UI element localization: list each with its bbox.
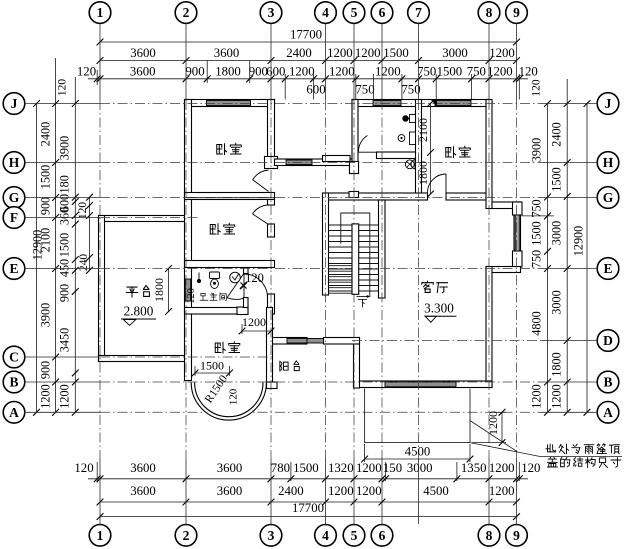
svg-text:750: 750 (401, 83, 420, 97)
axis grid line D (352, 340, 598, 342)
svg-text:F: F (10, 210, 18, 225)
svg-text:1200: 1200 (356, 484, 382, 498)
dimension line top row3 (88, 75, 528, 82)
svg-text:4: 4 (322, 5, 329, 20)
wall: balcony top wall right part (324, 338, 360, 345)
wall: living room bay top wall (492, 202, 521, 209)
svg-text:1200: 1200 (489, 461, 515, 475)
door leaf bathroom2 (227, 274, 244, 298)
window balcony left (287, 339, 307, 344)
floor drain bathroom2 (197, 279, 201, 283)
svg-text:120: 120 (57, 79, 69, 97)
svg-text:J: J (605, 96, 612, 111)
svg-text:3600: 3600 (217, 484, 243, 498)
svg-text:3000: 3000 (407, 461, 433, 475)
svg-text:2: 2 (183, 528, 190, 543)
svg-text:1320: 1320 (328, 461, 354, 475)
svg-text:3900: 3900 (57, 136, 71, 160)
wall: platform top wall (99, 216, 185, 222)
wall: passage right wall stub (268, 294, 275, 314)
wall: bedroom1 right wall (268, 100, 275, 157)
door arc bedroom4 (428, 174, 447, 193)
toilet bathroom2 (210, 272, 220, 279)
stair treads (329, 225, 379, 291)
canopy outline (365, 389, 470, 443)
svg-text:1: 1 (97, 5, 104, 20)
svg-text:900: 900 (39, 361, 53, 379)
svg-text:2400: 2400 (39, 122, 53, 146)
wall: top wall bathroom and bedroom4 (352, 100, 492, 107)
stair stringer (352, 224, 359, 294)
wall: G wall stair and bedroom4 left part (323, 193, 428, 200)
room label bathroom2 (200, 293, 208, 300)
room label bedroom4 (446, 147, 456, 158)
svg-text:2100: 2100 (416, 118, 430, 142)
svg-text:1500: 1500 (39, 165, 53, 189)
svg-text:3000: 3000 (442, 46, 468, 60)
wall: living room right wall (486, 267, 492, 388)
grid circle B left (3, 371, 25, 393)
axis grid line E (24, 268, 598, 270)
svg-text:120: 120 (77, 65, 96, 79)
dimension line right inner chain (544, 100, 551, 416)
svg-text:3000: 3000 (550, 290, 564, 314)
stair lower flight extra lines (329, 266, 353, 294)
grid circle 1 top (89, 2, 111, 24)
canopy leader lines (470, 421, 517, 452)
svg-text:900: 900 (39, 197, 53, 215)
svg-text:1200: 1200 (356, 461, 382, 475)
svg-text:E: E (603, 261, 612, 276)
elevation underline living room (425, 315, 457, 317)
bay semicircle inner (195, 383, 263, 417)
dimension line top row2 (97, 57, 520, 64)
dimension line left overall (33, 100, 40, 416)
grid circle E left (3, 258, 25, 280)
svg-text:6: 6 (379, 528, 386, 543)
svg-text:8: 8 (486, 5, 493, 20)
axis grid line 7 (418, 24, 420, 525)
wall: G wall bedrooms (185, 193, 275, 200)
dimension line 17700 bottom (97, 513, 520, 520)
axis grid line 9 (516, 24, 518, 526)
window balcony slider (307, 339, 324, 344)
svg-text:H: H (603, 155, 614, 170)
grid circle 4 bottom (315, 525, 337, 547)
wall: stairwell left wall (323, 193, 329, 295)
grid circle G left (3, 187, 25, 209)
svg-text:2400: 2400 (278, 484, 304, 498)
axis grid line 4 (325, 24, 327, 526)
svg-text:2: 2 (183, 5, 190, 20)
wall: H wall corridor (275, 159, 353, 166)
elevation triangle platform (123, 320, 135, 326)
axis grid line 5 (353, 24, 355, 526)
svg-text:2400: 2400 (286, 46, 312, 60)
bedroom3 dim line 1500 (192, 366, 233, 376)
svg-text:1200: 1200 (242, 315, 266, 329)
svg-text:780: 780 (271, 461, 290, 475)
grid circle 8 top (478, 2, 500, 24)
svg-text:1200: 1200 (486, 411, 500, 435)
wall: bay wall bottom cap (513, 251, 523, 267)
basin bathroom top (410, 132, 416, 145)
wall: bedroom2 right wall upper stub (268, 200, 275, 206)
axis grid line F (24, 217, 200, 219)
room label bedroom1 (217, 144, 227, 155)
axis grid line 2 (185, 24, 187, 526)
grid circle 3 bottom (260, 525, 282, 547)
svg-text:1200: 1200 (329, 65, 355, 79)
axis grid line B (24, 381, 598, 383)
grid circle A right (597, 402, 619, 424)
wall: grid7 wall (416, 100, 422, 194)
G wall inner face line (185, 197, 275, 199)
axis grid line 3 (270, 24, 272, 526)
toilet bathroom top (404, 118, 416, 120)
svg-text:B: B (603, 375, 612, 390)
svg-text:1200: 1200 (489, 46, 515, 60)
svg-text:180: 180 (57, 175, 71, 193)
grid circle H left (3, 152, 25, 174)
window bay east (515, 215, 519, 251)
grid circle E right (597, 258, 619, 280)
svg-text:H: H (9, 155, 20, 170)
door tick bathroom2 (240, 282, 247, 289)
svg-text:600: 600 (266, 65, 285, 79)
window H corridor (286, 160, 312, 165)
grid circle 9 top (506, 2, 528, 24)
note line2 盖的结构尺寸 (547, 457, 557, 467)
door arc bedroom2 (253, 205, 269, 214)
grid circle 6 bottom (371, 525, 393, 547)
svg-text:1200: 1200 (487, 65, 513, 79)
axis grid line C (24, 356, 272, 358)
axis grid line J (24, 103, 598, 105)
window living room south (385, 382, 456, 387)
wall: bathroom left wall lower block (350, 162, 359, 174)
canopy right dim line 1200 (472, 409, 506, 446)
svg-text:3.300: 3.300 (424, 300, 454, 315)
window bathroom2 west (185, 279, 190, 301)
wall: bathroom left wall end block (350, 166, 359, 174)
grid circle 1 bottom (89, 525, 111, 547)
axis grid line G (24, 197, 598, 199)
svg-text:360: 360 (57, 207, 71, 225)
svg-text:17700: 17700 (290, 28, 322, 42)
svg-text:450: 450 (57, 259, 71, 277)
grid circle 3 top (260, 2, 282, 24)
svg-text:4500: 4500 (423, 484, 449, 498)
svg-text:1200: 1200 (39, 384, 53, 408)
svg-text:3600: 3600 (130, 65, 156, 79)
svg-text:7: 7 (415, 5, 422, 20)
dimension line right overall (584, 100, 591, 416)
svg-text:1200: 1200 (355, 46, 381, 60)
wall: bathroom2 bottom wall end cap (237, 307, 248, 315)
room label platform (126, 287, 137, 297)
dimension line right mid chain (564, 79, 571, 416)
grid circle 5 bottom (343, 525, 365, 547)
wall: bathroom bottom wall (377, 152, 422, 159)
wall: bedroom1 door end block (265, 157, 278, 169)
svg-text:9: 9 (513, 528, 520, 543)
wall: bathroom top left wall (352, 100, 358, 167)
svg-text:900: 900 (185, 65, 204, 79)
svg-text:D: D (603, 333, 613, 348)
svg-text:900: 900 (249, 65, 268, 79)
svg-text:1200: 1200 (328, 484, 354, 498)
grid circle 6 top (371, 2, 393, 24)
wall: west wall (185, 100, 192, 381)
axis grid line A (24, 411, 598, 413)
window bedroom1 top (207, 101, 251, 106)
door arc bedroom1 (253, 170, 269, 180)
svg-text:3: 3 (268, 5, 275, 20)
room label bedroom2 (210, 224, 220, 235)
svg-text:1500: 1500 (383, 46, 409, 60)
svg-text:5: 5 (351, 528, 358, 543)
svg-text:750: 750 (467, 65, 486, 79)
svg-text:1800: 1800 (550, 352, 564, 376)
svg-text:2.800: 2.800 (124, 304, 154, 319)
svg-text:750: 750 (355, 83, 374, 97)
grid circle F left (3, 207, 25, 229)
svg-text:6: 6 (379, 5, 386, 20)
wall: platform bottom wall (99, 356, 185, 362)
grid circle C left (3, 346, 25, 368)
svg-text:3600: 3600 (130, 46, 156, 60)
svg-text:750: 750 (530, 199, 544, 217)
grid circle J right (597, 93, 619, 115)
svg-text:B: B (9, 375, 18, 390)
axis grid line 8 (488, 24, 490, 526)
svg-text:1500: 1500 (437, 65, 463, 79)
wall: stairwell right wall (379, 200, 386, 298)
wall: bedroom2 bottom wall (185, 261, 275, 268)
wall: bedroom2 right wall lower (268, 224, 275, 237)
dimension line bottom rowB (88, 475, 528, 482)
svg-text:120: 120 (521, 461, 540, 475)
svg-text:3: 3 (268, 528, 275, 543)
svg-text:1350: 1350 (461, 461, 487, 475)
grid circle 7 top (408, 2, 430, 24)
svg-text:3900: 3900 (39, 303, 53, 327)
svg-text:4500: 4500 (405, 445, 431, 459)
extension line right 750 sub (522, 215, 554, 217)
grid circle H right (597, 152, 619, 174)
canopy dimension line 4500 (361, 444, 473, 462)
svg-text:8: 8 (486, 528, 493, 543)
dimension line left sub chain (86, 194, 93, 274)
grid circle J left (3, 93, 25, 115)
svg-text:120: 120 (77, 202, 89, 220)
svg-text:4800: 4800 (530, 311, 544, 335)
wall: bathroom2 right wall lower stub (244, 298, 249, 308)
axis grid line 6 (381, 24, 383, 526)
svg-text:1500: 1500 (550, 167, 564, 191)
svg-text:750: 750 (530, 250, 544, 268)
room label living room (422, 281, 433, 292)
svg-text:1800: 1800 (215, 65, 241, 79)
wall: G wall bedroom4 right part (446, 193, 492, 200)
svg-text:1800: 1800 (152, 278, 166, 302)
svg-text:1200: 1200 (489, 484, 515, 498)
wall: bay wall top cap (513, 202, 523, 215)
svg-text:3900: 3900 (530, 138, 544, 162)
axis grid line 1 (99, 24, 101, 526)
svg-text:E: E (9, 261, 18, 276)
note line1 此处为雨篷顶 (546, 444, 556, 452)
svg-text:120: 120 (186, 288, 197, 304)
basin bathroom2 (230, 272, 241, 283)
svg-text:1200: 1200 (550, 384, 564, 408)
wall: living room bottom wall (354, 381, 493, 388)
elevation underline platform (121, 318, 156, 320)
svg-text:120: 120 (245, 271, 264, 285)
room label bedroom3 (215, 342, 225, 353)
svg-text:2400: 2400 (550, 122, 564, 146)
svg-text:3600: 3600 (214, 46, 240, 60)
wall: bathroom2 bottom wall (185, 308, 249, 315)
grid circle B right (597, 371, 619, 393)
svg-text:3600: 3600 (130, 461, 156, 475)
grid circle 9 bottom (506, 525, 528, 547)
svg-text:1500: 1500 (57, 233, 71, 257)
svg-text:120: 120 (531, 79, 543, 97)
svg-text:120: 120 (228, 388, 240, 405)
svg-text:12900: 12900 (571, 226, 585, 256)
stair direction line (357, 247, 370, 297)
dimension line 17700 top (97, 39, 520, 46)
wall: balcony top wall left part (273, 338, 308, 345)
top sub extension lines (97, 61, 519, 100)
svg-text:1200: 1200 (530, 384, 544, 408)
grid circle 8 bottom (478, 525, 500, 547)
wall: H wall stub at stairwell (323, 156, 351, 162)
svg-text:1: 1 (97, 528, 104, 543)
wall: bedroom4 right wall (486, 100, 492, 209)
wall: E step wall (486, 267, 521, 273)
wall: platform left wall (99, 216, 105, 362)
axis grid line H (24, 162, 598, 164)
svg-text:750: 750 (417, 65, 436, 79)
door arc bathroom top (358, 136, 367, 152)
black flag bedroom4 window (431, 100, 437, 107)
grid circle 2 bottom (175, 525, 197, 547)
svg-text:1500: 1500 (530, 221, 544, 245)
svg-text:600: 600 (306, 83, 325, 97)
urinal fixture (411, 160, 415, 170)
svg-text:1500: 1500 (293, 461, 319, 475)
svg-text:1200: 1200 (327, 46, 353, 60)
door arc bedroom3 (244, 274, 268, 298)
svg-text:A: A (603, 405, 613, 420)
grid circle 5 top (343, 2, 365, 24)
svg-text:3600: 3600 (130, 484, 156, 498)
room label balcony (280, 361, 288, 371)
bottom sub extension lines (97, 462, 519, 481)
svg-text:4: 4 (322, 528, 329, 543)
svg-text:1800: 1800 (416, 161, 430, 185)
wall: stair stringer notch (349, 192, 359, 198)
wall: bay window wall right (514, 202, 521, 267)
svg-text:120: 120 (519, 65, 538, 79)
dimension line bottom rowC (97, 499, 520, 506)
bedroom3 dim line 1200 (239, 324, 275, 334)
svg-text:17700: 17700 (292, 501, 324, 515)
svg-text:1200: 1200 (375, 65, 401, 79)
svg-text:J: J (11, 96, 18, 111)
svg-text:G: G (9, 190, 20, 205)
grid circle A left (3, 402, 25, 424)
stair handrail (341, 213, 370, 246)
bay semicircle outer (191, 383, 266, 421)
svg-text:120: 120 (74, 461, 93, 475)
internal dim line 2100 1800 (427, 100, 434, 197)
svg-text:2100: 2100 (39, 228, 53, 252)
wall: balcony right wall (354, 338, 360, 389)
grid circle G right (597, 187, 619, 209)
svg-text:3450: 3450 (57, 328, 71, 352)
grid circle 2 top (175, 2, 197, 24)
svg-text:1200: 1200 (57, 384, 71, 408)
svg-text:5: 5 (351, 5, 358, 20)
grid circle D right (597, 330, 619, 352)
svg-text:1500: 1500 (200, 359, 224, 373)
dimension line left inner chain (72, 77, 79, 416)
wall: bathroom2 right wall upper stub (244, 268, 249, 274)
svg-text:1200: 1200 (289, 65, 315, 79)
svg-text:3000: 3000 (550, 221, 564, 245)
wall: balcony bottom left return (267, 382, 278, 389)
svg-text:9: 9 (513, 5, 520, 20)
svg-text:900: 900 (57, 284, 71, 302)
grid circle 4 top (315, 2, 337, 24)
window bathroom top (373, 101, 401, 106)
window bedroom4 top (435, 101, 471, 106)
svg-text:G: G (603, 190, 614, 205)
elevation triangle living room (425, 316, 436, 322)
wall: top wall bedroom1 (185, 100, 275, 107)
svg-text:A: A (9, 405, 19, 420)
wall: bedroom3 right wall (267, 308, 273, 386)
svg-text:C: C (9, 350, 19, 365)
stair label 下 (358, 299, 366, 307)
svg-text:3600: 3600 (217, 461, 243, 475)
dimension line left mid chain (52, 58, 59, 416)
platform dim line 1800 (165, 265, 172, 315)
